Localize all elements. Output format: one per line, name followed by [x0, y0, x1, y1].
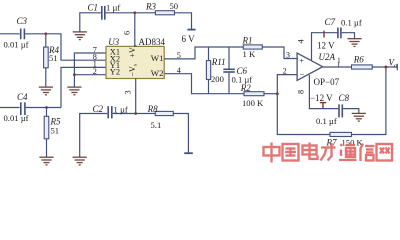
- wire C2 left to ground: [80, 114, 108, 158]
- svg-text:C7: C7: [325, 17, 336, 27]
- capacitor C6: [223, 69, 235, 72]
- terminal: [184, 152, 193, 154]
- ground G3 (X1/Y2): [67, 87, 81, 95]
- power tick -12V: [320, 103, 326, 109]
- wire R11 stubs: [208, 47, 210, 61]
- wire pin1 Y1: [61, 67, 106, 107]
- capacitor C1: [102, 6, 105, 20]
- svg-text:12 V: 12 V: [317, 41, 335, 51]
- wire: [45, 68, 47, 87]
- capacitor C2: [108, 106, 112, 118]
- resistor R2: [244, 92, 264, 96]
- svg-text:5: 5: [177, 51, 181, 60]
- resistor R1: [243, 45, 262, 49]
- wire: [46, 108, 48, 117]
- svg-text:U2A: U2A: [319, 52, 336, 62]
- svg-text:+: +: [299, 55, 304, 65]
- capacitor C4: [21, 102, 25, 115]
- svg-text:C3: C3: [17, 16, 28, 26]
- char zhong: [264, 143, 280, 163]
- svg-text:−12 V: −12 V: [310, 93, 333, 103]
- terminal 6V: [187, 29, 195, 31]
- svg-text:8: 8: [297, 90, 306, 94]
- svg-text:R11: R11: [211, 57, 226, 67]
- node C2-pin3: [134, 112, 137, 115]
- wire: [208, 80, 210, 94]
- svg-text:4: 4: [297, 39, 306, 43]
- wire pin5 W1 rail: [164, 47, 243, 59]
- wire opamp bottom pin: [309, 75, 338, 109]
- wire: [113, 113, 156, 115]
- wire: [264, 93, 277, 95]
- ground G6 (C7): [347, 39, 361, 47]
- ground G7 (C8): [352, 113, 366, 121]
- node C3-R4: [44, 32, 47, 35]
- wire pin6: [134, 13, 136, 47]
- wire feedback right: [352, 67, 386, 135]
- power tick +12V: [323, 31, 325, 38]
- svg-text:1 µf: 1 µf: [114, 105, 128, 115]
- wire: [343, 109, 359, 114]
- svg-text:C1: C1: [88, 3, 99, 13]
- svg-text:100 K: 100 K: [242, 98, 264, 108]
- wire feedback down: [277, 94, 330, 135]
- wire: [342, 33, 355, 39]
- svg-text:2: 2: [283, 66, 287, 75]
- resistor R6: [352, 65, 373, 69]
- wire pin2 opamp: [277, 75, 297, 94]
- pin1 tick opamp: [338, 63, 340, 67]
- svg-text:R2: R2: [240, 83, 251, 93]
- svg-text:U3: U3: [108, 37, 119, 47]
- svg-text:3: 3: [286, 51, 290, 60]
- svg-text:R3: R3: [145, 1, 156, 11]
- svg-text:AD834: AD834: [139, 37, 166, 47]
- node Vo-feedback: [384, 66, 387, 69]
- svg-text:50: 50: [170, 1, 179, 11]
- svg-text:C2: C2: [93, 104, 104, 114]
- wire output: [323, 66, 352, 68]
- wire pin3 bottom: [135, 79, 137, 114]
- resistor R7: [330, 132, 352, 136]
- svg-text:51: 51: [49, 53, 58, 63]
- char tong: [339, 144, 357, 160]
- svg-text:51: 51: [51, 125, 60, 135]
- wire: [26, 107, 61, 109]
- ground symbols: [39, 32, 366, 165]
- svg-text:1: 1: [337, 56, 341, 65]
- svg-text:6 V: 6 V: [182, 34, 196, 44]
- svg-text:Y2: Y2: [110, 67, 120, 76]
- svg-text:0.1 µf: 0.1 µf: [316, 116, 337, 126]
- resistor R4: [44, 47, 49, 68]
- char guo: [283, 144, 299, 161]
- wire pin4 W2 bus: [164, 74, 244, 94]
- svg-text:2: 2: [93, 67, 97, 76]
- wire pin2 Y2: [74, 74, 106, 76]
- svg-text:0.1 µf: 0.1 µf: [341, 17, 362, 27]
- svg-text:W2: W2: [151, 68, 164, 78]
- wire to 6V: [175, 13, 192, 29]
- ground G4 (R5): [39, 157, 53, 165]
- svg-text:6: 6: [123, 31, 132, 35]
- watermark 中国电力通信网: [264, 143, 393, 163]
- svg-text:200: 200: [211, 74, 224, 84]
- resistor R3: [155, 11, 174, 15]
- node C1-pin6: [133, 11, 136, 14]
- capacitor C3: [21, 29, 25, 40]
- node C4-R5: [45, 106, 48, 109]
- svg-text:W1: W1: [151, 53, 164, 63]
- wire to terminal: [173, 114, 188, 153]
- wire C1 left to ground: [80, 13, 101, 32]
- svg-text:1 K: 1 K: [243, 49, 256, 59]
- wire Vo: [372, 66, 397, 68]
- char dian: [303, 143, 318, 160]
- wire: [228, 73, 230, 94]
- svg-text:C8: C8: [339, 93, 350, 103]
- ground G5 (C2 left): [73, 157, 87, 165]
- wire: [45, 34, 47, 47]
- svg-text:OP−07: OP−07: [314, 77, 340, 87]
- svg-text:5.1: 5.1: [151, 120, 162, 130]
- svg-text:R6: R6: [353, 55, 364, 65]
- op-amp U2A: [297, 53, 323, 80]
- wire opamp top pin: [312, 33, 338, 61]
- wire: [0, 107, 20, 109]
- wire: [0, 33, 20, 35]
- svg-text:3: 3: [124, 90, 133, 94]
- wire pin7 X1: [74, 53, 106, 87]
- node R2-pin2-feedback: [276, 92, 279, 95]
- wire: [46, 139, 48, 157]
- wire: [106, 12, 156, 14]
- node Y2-gnd: [73, 73, 76, 76]
- svg-text:0.01 µf: 0.01 µf: [4, 39, 29, 49]
- svg-text:0.01 µf: 0.01 µf: [4, 113, 29, 123]
- wire: [25, 34, 106, 60]
- resistor R5: [44, 116, 49, 139]
- terminal Vo tick: [396, 64, 398, 70]
- resistor R11: [206, 61, 210, 80]
- ground G2 (R4): [39, 87, 53, 95]
- char wang: [377, 144, 393, 161]
- svg-text:R1: R1: [242, 35, 253, 45]
- svg-text:R8: R8: [147, 104, 158, 114]
- svg-text:−: −: [300, 70, 305, 80]
- chip U3 AD834: [106, 46, 164, 78]
- char li: [321, 143, 336, 161]
- char xin: [361, 144, 375, 162]
- svg-text:4: 4: [177, 66, 181, 75]
- wire C6 stub: [228, 47, 230, 69]
- svg-text:C4: C4: [17, 92, 28, 102]
- svg-text:1 µf: 1 µf: [106, 3, 120, 13]
- capacitor C8: [339, 104, 342, 117]
- resistor R8: [155, 111, 173, 115]
- capacitor C7: [338, 28, 341, 39]
- ground G1 (C1 left): [73, 32, 87, 40]
- wire R1 to pin3: [262, 47, 297, 59]
